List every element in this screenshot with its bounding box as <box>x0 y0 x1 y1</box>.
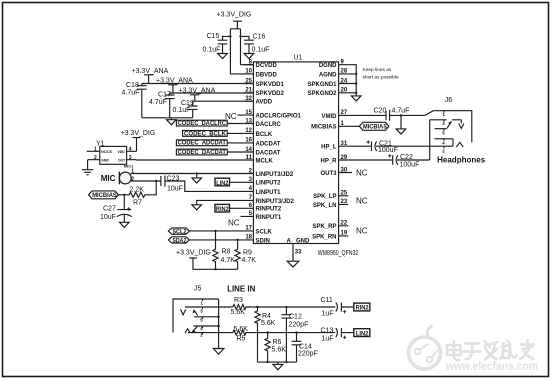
svg-text:4: 4 <box>129 147 132 153</box>
connector J5 line-in jack <box>173 299 233 354</box>
svg-text:25: 25 <box>245 78 252 84</box>
svg-text:R4: R4 <box>262 313 271 320</box>
power +3.3V_DIG pullup rail <box>189 258 237 269</box>
svg-text:SPK_LN: SPK_LN <box>313 203 337 209</box>
mic pin 2 wire to C23 <box>131 180 160 182</box>
ground bracket right pins 9 28 24 20 <box>348 65 361 101</box>
oscillator Y1 <box>87 146 137 164</box>
wire MCLK from Y1 OUT to pin 11 <box>137 159 244 161</box>
svg-text:18: 18 <box>245 235 252 241</box>
left pin numbers <box>245 60 252 241</box>
svg-text:RINPUT3/JD2: RINPUT3/JD2 <box>256 199 295 205</box>
pin A GND (pad 33) <box>287 244 299 268</box>
svg-text:LINPUT2: LINPUT2 <box>256 181 282 187</box>
svg-text:C11: C11 <box>321 297 333 304</box>
svg-text:17: 17 <box>245 226 252 232</box>
svg-text:+3.3V_DIG: +3.3V_DIG <box>217 12 252 19</box>
ground arrow under bus <box>167 120 177 125</box>
svg-text:10: 10 <box>245 69 252 75</box>
svg-text:MIC1: MIC1 <box>124 163 134 168</box>
svg-text:4.7K: 4.7K <box>221 257 236 264</box>
svg-text:DBVDD: DBVDD <box>256 72 278 78</box>
svg-text:C15: C15 <box>207 33 220 40</box>
svg-text:15: 15 <box>245 110 252 116</box>
svg-text:NC: NC <box>356 227 368 236</box>
svg-text:33: 33 <box>295 250 302 256</box>
svg-text:C16: C16 <box>253 34 266 41</box>
pin numbers Y1 <box>94 147 132 162</box>
svg-text:CODEC_DACLRC: CODEC_DACLRC <box>178 120 227 127</box>
svg-text:OUT3: OUT3 <box>320 171 337 177</box>
capacitor C13 <box>336 328 354 337</box>
microphone MIC1 <box>119 172 131 185</box>
svg-text:BCLK: BCLK <box>256 132 273 138</box>
svg-text:HP_L: HP_L <box>321 145 337 151</box>
svg-text:+3.3V_ANA: +3.3V_ANA <box>179 88 216 95</box>
svg-text:OUT: OUT <box>118 158 126 162</box>
svg-text:R3: R3 <box>234 297 243 304</box>
svg-text:C20: C20 <box>374 107 387 114</box>
svg-text:C19: C19 <box>181 100 194 107</box>
svg-text:21: 21 <box>245 88 252 94</box>
svg-text:C13: C13 <box>321 327 334 334</box>
svg-text:2.2K: 2.2K <box>130 187 145 194</box>
svg-text:1uF: 1uF <box>322 311 334 318</box>
svg-text:SCLK: SCLK <box>256 229 273 235</box>
svg-text:4.7uF: 4.7uF <box>122 90 140 97</box>
svg-text:22: 22 <box>341 221 348 227</box>
svg-text:16: 16 <box>245 138 252 144</box>
svg-text:NC: NC <box>356 168 368 177</box>
net box CODEC_ADCDAT <box>176 140 243 146</box>
svg-text:SPK_RP: SPK_RP <box>312 224 336 230</box>
svg-text:C22: C22 <box>400 154 413 161</box>
svg-text:27: 27 <box>341 110 348 116</box>
svg-text:CODEC_BCLK: CODEC_BCLK <box>184 130 226 137</box>
svg-text:23: 23 <box>341 199 348 205</box>
svg-text:2: 2 <box>131 177 134 183</box>
power +3.3V_ANA rail 2 <box>168 85 253 93</box>
capacitor C27 <box>117 195 132 228</box>
right pin names <box>307 63 337 240</box>
svg-text:NC: NC <box>225 112 237 121</box>
resistor R7 <box>118 181 156 197</box>
left pin names <box>256 63 302 244</box>
svg-text:DACDAT: DACDAT <box>256 150 281 156</box>
svg-text:220pF: 220pF <box>298 351 318 358</box>
svg-text:19: 19 <box>341 231 348 237</box>
svg-text:VDD: VDD <box>118 150 126 154</box>
svg-text:DACLRC: DACLRC <box>256 122 282 128</box>
net box LIN2 (bottom) <box>354 329 370 337</box>
svg-text:220pF: 220pF <box>289 321 309 328</box>
svg-text:Keep lines as: Keep lines as <box>363 67 392 73</box>
capacitor C15 <box>218 36 231 58</box>
right pin numbers <box>341 60 348 237</box>
power +3.3V_ANA rail 3 <box>190 95 253 101</box>
svg-text:www.elecfans.com: www.elecfans.com <box>445 361 538 373</box>
svg-text:CODEC_ADCDAT: CODEC_ADCDAT <box>178 140 226 147</box>
capacitor C16 <box>241 36 254 58</box>
svg-text:14: 14 <box>245 147 252 153</box>
svg-text:MICBIAS: MICBIAS <box>363 124 388 131</box>
capacitor C17 <box>165 93 175 118</box>
net label MICBIAS (left) <box>89 191 119 199</box>
svg-text:ADCDAT: ADCDAT <box>256 141 281 147</box>
svg-text:VMID: VMID <box>322 114 338 120</box>
capacitor C21 on HP_L <box>348 142 453 152</box>
svg-text:DCVDD: DCVDD <box>256 63 278 69</box>
svg-text:R7: R7 <box>133 200 142 207</box>
svg-text:4.7uF: 4.7uF <box>149 99 167 106</box>
svg-text:R6: R6 <box>273 339 282 346</box>
ground arrow at C20 <box>396 115 406 134</box>
capacitor C19 <box>188 101 198 118</box>
svg-text:LIN2: LIN2 <box>216 180 229 187</box>
net box LIN2 (pin 3) <box>215 178 230 186</box>
svg-text:C14: C14 <box>299 343 312 350</box>
svg-text:GND: GND <box>296 238 310 244</box>
svg-text:NC/CK: NC/CK <box>101 150 112 154</box>
svg-text:0.1uF: 0.1uF <box>173 107 191 114</box>
svg-text:1uF: 1uF <box>322 336 334 343</box>
analog ground bus <box>142 118 193 120</box>
resistor R9 <box>235 240 240 269</box>
svg-text:LINPUT1: LINPUT1 <box>256 190 282 196</box>
svg-text:MICBIAS: MICBIAS <box>92 192 117 199</box>
svg-text:SPK_LP: SPK_LP <box>313 194 336 200</box>
resistor R6 <box>265 333 270 363</box>
svg-text:RIN2: RIN2 <box>216 206 229 213</box>
svg-text:C12: C12 <box>289 313 302 320</box>
svg-text:5.6K: 5.6K <box>261 320 276 327</box>
ground Y1 pin2 <box>82 160 93 175</box>
svg-text:SPKGND1: SPKGND1 <box>307 82 337 88</box>
svg-text:R5: R5 <box>237 336 246 343</box>
svg-text:U1: U1 <box>294 55 303 62</box>
svg-text:+3.3V_ANA: +3.3V_ANA <box>156 78 193 85</box>
svg-text:10uF: 10uF <box>167 186 183 193</box>
resistor R5 <box>233 330 335 335</box>
svg-text:NC: NC <box>356 196 368 205</box>
svg-text:J5: J5 <box>194 285 202 292</box>
right pin stubs <box>339 65 352 236</box>
wire pin 7 with ground arrow <box>192 200 244 210</box>
capacitor C22 on HP_R <box>348 155 429 165</box>
svg-text:32: 32 <box>245 96 252 102</box>
svg-text:RINPUT2: RINPUT2 <box>256 207 282 213</box>
svg-text:1: 1 <box>131 169 134 175</box>
svg-text:MICBIAS: MICBIAS <box>311 125 336 131</box>
net box RIN2 (pin 6) <box>215 204 230 212</box>
ground rail bottom filter <box>258 362 297 370</box>
svg-text:SPK_RN: SPK_RN <box>312 234 336 240</box>
net label SCL2 <box>168 228 243 234</box>
svg-text:C18: C18 <box>126 82 139 89</box>
svg-text:C17: C17 <box>158 92 171 99</box>
svg-text:28: 28 <box>341 69 348 75</box>
svg-text:LINPUT3/JD2: LINPUT3/JD2 <box>256 172 294 178</box>
svg-text:SPKGND2: SPKGND2 <box>307 91 337 97</box>
svg-text:R9: R9 <box>243 249 252 256</box>
svg-text:11: 11 <box>246 155 253 161</box>
ground arrow on LINPUT3 wire <box>192 174 202 184</box>
svg-text:4.7K: 4.7K <box>242 257 257 264</box>
svg-text:24: 24 <box>341 78 348 84</box>
svg-text:+3.3V_DIG: +3.3V_DIG <box>176 250 211 257</box>
net box CODEC_DACDAT <box>176 149 243 155</box>
svg-text:31: 31 <box>341 141 348 147</box>
svg-text:SDIN: SDIN <box>256 238 270 244</box>
op-amp/codec U1 WM8960 <box>253 62 338 244</box>
svg-text:2: 2 <box>94 155 97 161</box>
svg-text:CODEC_DACDAT: CODEC_DACDAT <box>178 149 226 156</box>
resistor R3 <box>233 305 335 310</box>
svg-text:C23: C23 <box>167 176 180 183</box>
svg-text:3: 3 <box>129 155 132 161</box>
svg-text:RIN2: RIN2 <box>356 305 369 312</box>
svg-text:MCLK: MCLK <box>256 158 274 164</box>
net box CODEC_DACLRC <box>176 120 243 126</box>
NC pin 15 <box>238 114 244 116</box>
svg-text:10uF: 10uF <box>100 214 116 221</box>
svg-text:HP_R: HP_R <box>320 158 337 164</box>
connector J6 headphone jack <box>425 111 472 160</box>
svg-text:SPKVDD2: SPKVDD2 <box>256 91 285 97</box>
svg-text:100uF: 100uF <box>378 147 398 154</box>
svg-text:30: 30 <box>341 167 348 173</box>
svg-text:LIN2: LIN2 <box>356 330 369 337</box>
left pin stubs <box>241 65 254 240</box>
power +3.3V_ANA rail 1 <box>142 75 254 84</box>
svg-text:Y1: Y1 <box>96 141 105 148</box>
svg-text:12: 12 <box>245 128 252 134</box>
svg-text:ADCLRC/GPIO1: ADCLRC/GPIO1 <box>256 114 302 120</box>
svg-text:J6: J6 <box>445 97 453 104</box>
net box RIN2 (bottom) <box>354 303 370 311</box>
power +3.3V_DIG top <box>230 21 253 74</box>
svg-text:NC: NC <box>228 218 240 227</box>
svg-text:+3.3V_DIG: +3.3V_DIG <box>121 130 156 137</box>
svg-text:MIC: MIC <box>101 173 116 183</box>
svg-text:C27: C27 <box>103 206 116 213</box>
watermark <box>409 326 441 370</box>
svg-text:LINE IN: LINE IN <box>227 283 255 293</box>
svg-text:1: 1 <box>94 147 97 153</box>
net label MICBIAS (right) <box>348 122 389 130</box>
junction dots top rail <box>229 35 242 37</box>
svg-text:100uF: 100uF <box>400 161 420 168</box>
svg-text:DGND: DGND <box>319 63 337 69</box>
svg-text:AGND: AGND <box>319 72 337 78</box>
power +3.3V_DIG at Y1 <box>132 138 140 152</box>
svg-text:0.1uF: 0.1uF <box>252 47 270 54</box>
resistor R8 <box>213 231 218 269</box>
svg-text:5.6K: 5.6K <box>231 309 246 316</box>
svg-text:20: 20 <box>341 88 348 94</box>
svg-text:A: A <box>287 238 292 244</box>
svg-text:SPKVDD1: SPKVDD1 <box>256 82 285 88</box>
capacitor C23 <box>161 176 244 192</box>
svg-text:SCL2: SCL2 <box>172 229 186 236</box>
svg-text:4.7uF: 4.7uF <box>392 108 410 115</box>
svg-text:5.6K: 5.6K <box>272 347 287 354</box>
resistor R4 <box>255 307 260 362</box>
pin digits J5 <box>200 300 203 337</box>
svg-text:+3.3V_ANA: +3.3V_ANA <box>132 68 169 75</box>
svg-text:25: 25 <box>341 191 348 197</box>
svg-text:SDA2: SDA2 <box>172 237 186 244</box>
pin digits J6 <box>442 112 445 154</box>
capacitor C12 <box>282 307 292 362</box>
capacitor C20 on VMID <box>348 110 425 121</box>
svg-text:GND: GND <box>101 158 109 162</box>
capacitor C14 <box>292 333 302 363</box>
svg-text:short as possible: short as possible <box>363 74 399 80</box>
capacitor C11 <box>336 303 354 312</box>
svg-text:WM8960_QFN32: WM8960_QFN32 <box>318 250 359 257</box>
svg-text:29: 29 <box>341 155 348 161</box>
mic pin 1 wire to LINPUT3 <box>131 173 244 175</box>
svg-text:13: 13 <box>245 118 252 124</box>
svg-text:5.6K: 5.6K <box>234 326 249 333</box>
svg-text:R8: R8 <box>222 248 231 255</box>
svg-text:Headphones: Headphones <box>437 155 485 165</box>
net label SDA2 <box>168 237 243 243</box>
svg-text:AVDD: AVDD <box>256 100 273 106</box>
svg-text:RINPUT1: RINPUT1 <box>256 215 282 221</box>
capacitor C18 <box>137 84 147 118</box>
net box CODEC_BCLK <box>183 131 244 137</box>
svg-text:0.1uF: 0.1uF <box>203 47 221 54</box>
